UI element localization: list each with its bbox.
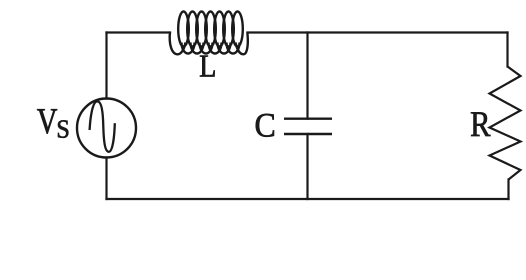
wire left upper [105,33,107,99]
wire top-right segment [248,31,508,33]
coil turn 3 [196,12,207,47]
label VS: subscript S [58,120,68,138]
coil turn 7 [232,12,243,47]
coil scallop 1 [182,43,195,54]
capacitor C [284,119,332,134]
source circle [77,99,136,158]
wire middle upper [306,33,308,119]
coil turn 5 [214,12,225,47]
label C (capacitor) [256,114,274,137]
sine waveform [90,101,115,151]
wire right lower [507,180,509,200]
resistor R [490,67,521,180]
inductor L [170,12,248,55]
wire bottom [107,198,509,200]
coil scallop 4 [209,43,222,54]
coil turn 2 [187,12,198,47]
voltage source VS [77,99,136,158]
label VS: letter V [37,109,57,133]
wire right upper [506,33,508,67]
coil scallop 6 [227,43,240,54]
coil scallop 2 [191,43,204,54]
coil exit [236,32,248,55]
wire left lower [105,158,107,200]
coil turn 1 [178,12,189,47]
label R (resistor) [471,112,490,136]
coil scallop 3 [200,43,213,54]
wire middle lower [306,134,308,199]
capacitor bottom plate [284,133,332,135]
coil entry [170,32,186,55]
label L (inductor) [200,56,215,77]
coil scallop 5 [218,43,231,54]
coil turn 6 [223,12,234,47]
wire top-left segment [107,31,171,33]
coil turn 4 [205,12,216,47]
capacitor top plate [284,117,332,119]
